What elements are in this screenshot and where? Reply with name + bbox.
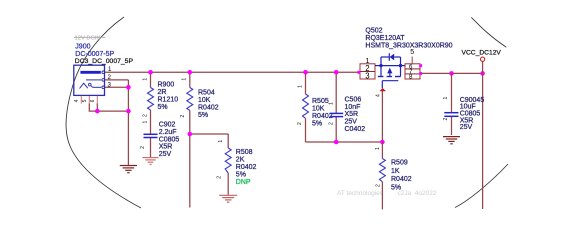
svg-text:C0805: C0805 [159,136,180,143]
wire: Q502 drain to VCC [421,72,483,74]
gate bar [382,80,398,82]
svg-text:2.2uF: 2.2uF [159,129,177,136]
ground (C902) [143,158,159,165]
svg-text:2R: 2R [158,89,167,96]
watermark arc bottom-right [455,164,508,208]
ground (R508) [219,195,237,202]
svg-text:Q502: Q502 [365,27,382,34]
node: lower rail junction at gate/R509 [380,140,385,145]
wire: lower rail [306,141,383,143]
svg-text:RQ3E120AT: RQ3E120AT [365,35,405,42]
resistor R509 [375,147,412,191]
node: rail junction at R505 [303,70,308,75]
svg-text:R505: R505 [312,98,329,105]
wire: R900/C902 column [150,72,152,87]
svg-text:5: 5 [82,99,88,102]
wire: pin6 stub [96,104,98,112]
svg-text:C902: C902 [159,122,176,129]
svg-text:1: 1 [443,97,449,100]
wire: R504 bottom to R508 [190,133,228,135]
transistor Q502 [357,27,452,97]
node: lower rail junction at C506 [334,140,339,145]
svg-text:1: 1 [143,78,149,81]
svg-text:2: 2 [443,118,449,121]
svg-text:1K: 1K [391,168,400,175]
resistor R505 [297,85,333,127]
svg-text:10K: 10K [312,106,325,113]
svg-text:5%: 5% [236,172,246,179]
svg-text:6: 6 [90,99,96,102]
svg-text:1: 1 [108,66,112,73]
svg-text:2: 2 [328,122,334,125]
Q502 drain pin nodes [419,64,422,67]
capacitor C506 [328,96,365,133]
svg-text:2: 2 [180,115,186,118]
connector J900 pin2 contact [86,79,101,81]
connector J900 body [74,65,105,95]
svg-text:3: 3 [365,72,369,81]
svg-text:R0402: R0402 [236,164,257,171]
svg-text:2: 2 [376,184,382,187]
node: bottom wire junction at pin6 [95,109,100,114]
wire: connector pin2 horizontal [104,79,128,81]
svg-text:1: 1 [298,85,304,88]
svg-text:5%: 5% [158,104,168,111]
node: junction at R504 bottom [188,132,193,137]
resistor R900 [143,78,179,117]
svg-text:DC-0007-5P: DC-0007-5P [75,51,114,58]
wire: R508 leads [227,134,229,148]
capacitor C90045 [443,97,484,132]
ground (connector) [120,166,137,173]
svg-text:10K: 10K [198,97,211,104]
node: rail junction at R900 [148,70,153,75]
mosfet body diode [390,54,395,61]
wire: R509 leads [381,142,383,159]
Q502 mosfet symbol [375,57,405,88]
wire: main rail pin1 to Q502 [105,71,360,73]
watermark arc top-right [471,17,506,47]
svg-text:DC3_DC_0007_5P: DC3_DC_0007_5P [75,58,134,65]
wire: connector bottom pins to trunk [89,104,128,112]
Q502 drain pin box [405,64,420,79]
wire: pin2/3 trunk down to ground [127,80,129,165]
svg-text:25V: 25V [460,124,473,131]
node: junction at VCC column [480,71,485,76]
Q502 source pin box [360,64,375,79]
svg-text:R0402: R0402 [198,105,219,112]
gate pin 4 arrow [380,88,387,91]
svg-text:R0402: R0402 [391,176,412,183]
Q502 source pin node [357,71,360,74]
svg-text:10nF: 10nF [345,104,361,111]
svg-text:1: 1 [143,121,149,124]
node: bottom wire meets trunk [126,109,131,114]
svg-text:HSMT8_3R30X3R30X0R90: HSMT8_3R30X3R30X0R90 [365,42,452,49]
node: pin3 junction [126,85,131,90]
connector J900 switch symbol [80,83,88,88]
node: rail junction at C506 [334,70,339,75]
resistor R508 [217,140,257,187]
connector J900 center pin bar [80,71,100,74]
wire: R504 bottom trunk down (off sheet) [189,134,191,208]
svg-text:5: 5 [410,49,414,56]
resistor R504 [180,78,219,120]
svg-text:VCC_DC12V: VCC_DC12V [462,50,502,57]
svg-text:5%: 5% [391,184,401,191]
svg-text:4: 4 [376,94,382,97]
mosfet substrate arrow [387,68,392,74]
connector J900 pin3 contact [93,86,102,88]
node: junction at C90045 [449,71,454,76]
channel bars [378,76,384,78]
svg-text:2: 2 [140,146,146,149]
svg-text:R509: R509 [391,160,408,167]
svg-text:R1210: R1210 [158,96,179,103]
connector J900 bottom pin 6 [96,96,98,104]
ground (C90045) [443,137,460,144]
svg-text:X5R: X5R [345,111,359,118]
svg-text:1: 1 [375,147,381,150]
svg-text:12V DCIN: 12V DCIN [75,36,101,42]
svg-text:2: 2 [108,74,112,81]
svg-text:R504: R504 [198,90,215,97]
connector J900 bottom pin 4 [80,96,82,104]
svg-text:2: 2 [217,176,223,179]
svg-text:5%: 5% [312,120,322,127]
svg-text:2K: 2K [236,157,245,164]
node: rail junction at R504 [188,70,193,75]
wire: gate trunk from Q502 pin4 [381,91,383,142]
svg-text:2: 2 [297,122,303,125]
svg-text:5%: 5% [198,112,208,119]
svg-text:3: 3 [108,81,112,88]
svg-text:C0402: C0402 [345,126,366,133]
wire: connector pin3 horizontal [104,86,128,88]
pin 5 stub [411,57,413,64]
svg-text:8: 8 [409,74,413,81]
power port VCC_DC12V [462,50,502,62]
capacitor C902 [140,121,179,159]
svg-text:X5R: X5R [159,144,173,151]
svg-text:25V: 25V [159,151,172,158]
svg-text:25V: 25V [345,119,358,126]
svg-text:DNP: DNP [236,179,251,186]
wire: R505 column [305,72,307,94]
connector J900 bottom pin 5 [88,96,90,104]
svg-text:2: 2 [143,114,149,117]
svg-text:AT technologies c2Ja 4: AT technologies c2Ja 4o2022 [337,190,437,197]
svg-text:1: 1 [182,78,188,81]
svg-text:1: 1 [218,140,224,143]
wire: C90045 column [451,73,453,112]
svg-text:R900: R900 [158,81,175,88]
wire: R504 column [189,72,191,87]
mosfet source dots [379,64,382,67]
svg-text:4: 4 [74,99,80,102]
svg-text:C506: C506 [345,96,362,103]
svg-text:1: 1 [328,102,334,105]
svg-text:R508: R508 [236,149,253,156]
connector J900 [74,44,134,104]
wire: C506 column [335,72,337,113]
watermark arc left [66,17,141,208]
wire: VCC trunk down (off sheet) [482,61,484,209]
svg-text:J900: J900 [75,44,90,51]
